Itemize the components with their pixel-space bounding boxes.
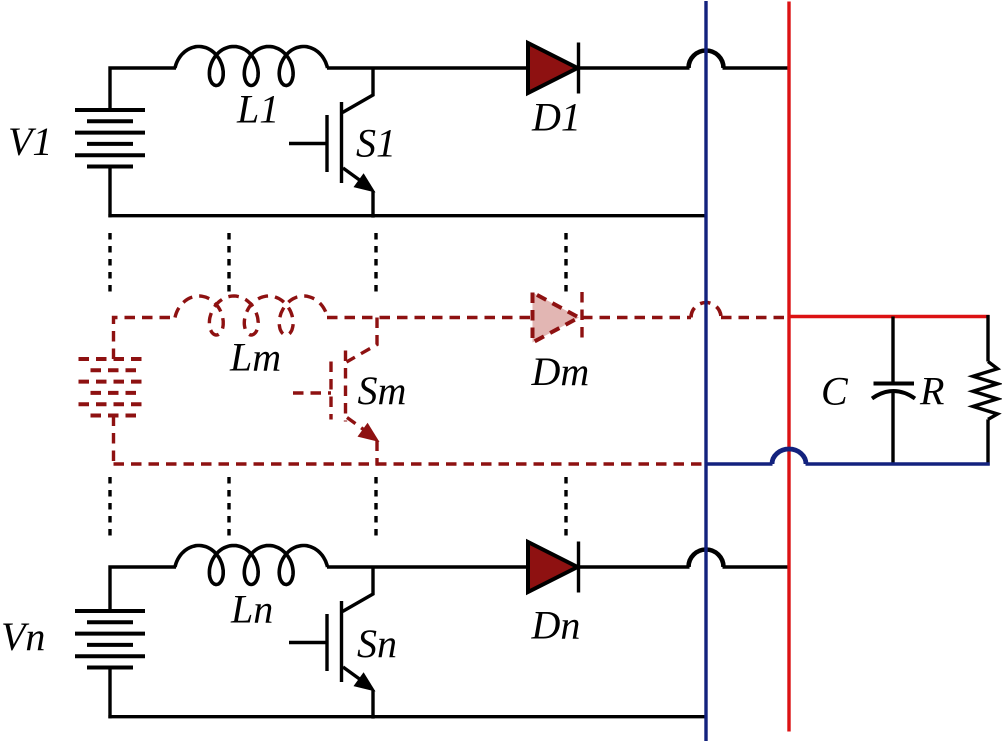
transistor S1 collector wire <box>343 68 374 113</box>
wire diode D1 cathode to red bus <box>579 66 690 69</box>
wire phase 1 bottom rail to blue bus <box>108 214 707 217</box>
wire inductor Lm to diode Dm anode (dashed) <box>327 316 533 319</box>
resistor R top lead <box>986 315 989 362</box>
wire battery Vn negative to bottom rail <box>108 668 111 719</box>
inductor Lm (dashed) <box>175 296 328 335</box>
svg-text:Dm: Dm <box>531 349 590 394</box>
wire hop over blue bus (phase 1) <box>689 51 724 69</box>
transistor Sm gate lead <box>293 391 331 394</box>
transistor Sm body bar <box>344 351 347 422</box>
transistor S1 emitter with arrow <box>343 168 365 184</box>
inductor Ln <box>175 546 328 585</box>
inductor L1 <box>175 47 328 86</box>
diode Dm cathode bar <box>580 292 583 343</box>
transistor S1 body bar <box>340 102 343 183</box>
svg-text:Sm: Sm <box>358 368 407 413</box>
transistor Sm collector wire <box>347 318 378 363</box>
wire red bus to load top rail <box>789 315 990 318</box>
transistor Sm emitter with arrow <box>347 418 369 434</box>
wire battery V1 negative to bottom rail <box>108 167 111 218</box>
blue wire hop over red bus <box>772 449 806 464</box>
diode Dm triangle <box>533 293 580 343</box>
svg-text:Lm: Lm <box>229 335 281 380</box>
battery Vn <box>75 609 145 613</box>
wire diode Dm cathode to red bus (dashed) <box>582 316 691 319</box>
transistor Sn gate lead <box>289 641 327 644</box>
svg-text:Ln: Ln <box>230 587 273 632</box>
blue bus (negative output node) <box>704 1 707 741</box>
continuation dashes between phase 1 and phase m <box>108 233 111 292</box>
continuation dashes between phase m and phase n <box>108 477 111 539</box>
transistor S1 gate lead <box>289 142 327 145</box>
transistor Sn gate bar <box>325 614 328 671</box>
transistor Sn emitter with arrow <box>343 667 365 683</box>
transistor Sm emitter wire <box>375 441 378 466</box>
blue wire: bottom rail of load <box>705 462 773 465</box>
battery V1 <box>75 108 145 112</box>
wire battery V1 positive to inductor L1 <box>110 68 176 110</box>
resistor R zigzag <box>973 362 998 420</box>
wire battery Vm positive to inductor Lm (dashed) <box>114 318 177 360</box>
svg-text:V1: V1 <box>8 119 52 164</box>
svg-text:C: C <box>821 369 849 414</box>
capacitor C top lead <box>891 317 894 386</box>
capacitor C top plate <box>874 382 915 386</box>
transistor Sn body bar <box>340 601 343 682</box>
capacitor C bottom lead <box>891 392 894 466</box>
dashed wire hop over blue bus (phase m) <box>691 303 721 318</box>
diode D1 triangle <box>528 43 578 93</box>
svg-text:Dn: Dn <box>531 603 581 648</box>
wire inductor L1 to diode D1 anode (node A1) <box>327 66 528 69</box>
diode Dn cathode bar <box>577 542 580 593</box>
diode Dn triangle <box>528 542 578 592</box>
svg-text:S1: S1 <box>356 121 396 166</box>
svg-text:Sn: Sn <box>357 621 397 666</box>
svg-text:R: R <box>919 369 944 414</box>
red bus (positive output node) <box>787 2 790 732</box>
wire inductor Ln to diode Dn anode <box>327 565 528 568</box>
transistor S1 emitter wire <box>371 191 374 218</box>
diode D1 cathode bar <box>577 43 580 94</box>
wire phase m bottom rail to blue bus (dashed) <box>114 462 708 465</box>
wire hop over blue bus (phase n) <box>689 550 724 568</box>
svg-text:Vn: Vn <box>1 614 45 659</box>
wire diode Dn cathode to red bus <box>579 565 690 568</box>
transistor Sn emitter wire <box>371 690 374 719</box>
transistor Sn collector wire <box>343 567 374 612</box>
svg-text:D1: D1 <box>531 95 581 140</box>
transistor Sm gate bar <box>329 362 332 420</box>
wire battery Vn positive to inductor Ln <box>110 567 176 611</box>
capacitor C curved plate <box>872 391 915 399</box>
transistor S1 gate bar <box>325 115 328 172</box>
battery Vm (dashed) <box>79 357 149 361</box>
resistor R bottom lead <box>986 419 989 465</box>
wire battery Vm negative to bottom rail (dashed) <box>112 416 115 465</box>
wire phase n bottom rail to blue bus <box>108 715 707 718</box>
svg-text:L1: L1 <box>236 87 279 132</box>
